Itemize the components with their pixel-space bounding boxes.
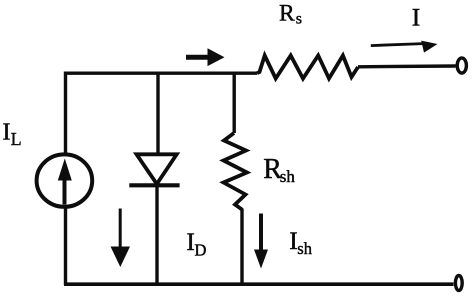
wire diode branch upper: [156, 72, 159, 155]
label Rs: [279, 1, 302, 28]
svg-text:I: I: [412, 2, 421, 31]
label ID: [186, 227, 206, 259]
diode D: [129, 154, 179, 185]
label Rsh: [263, 154, 295, 186]
svg-text:sh: sh: [280, 167, 296, 186]
wire Rsh branch lower: [240, 209, 243, 286]
svg-text:R: R: [279, 1, 295, 27]
svg-text:I: I: [3, 120, 11, 146]
wire bottom horizontal: [64, 282, 454, 286]
wire left vertical upper: [64, 72, 67, 154]
terminal bottom: [455, 276, 462, 291]
current arrow I (top right): [371, 41, 438, 53]
current source arrow: [58, 159, 72, 205]
label I: [412, 2, 421, 31]
svg-text:s: s: [296, 10, 302, 27]
wire diode branch lower: [155, 186, 158, 285]
label IL: [3, 120, 22, 149]
current arrow ID (down): [111, 209, 131, 268]
resistor Rs: [257, 56, 358, 79]
svg-text:sh: sh: [297, 239, 312, 258]
label Ish: [289, 226, 312, 258]
current arrow Ish (down): [254, 214, 268, 269]
wire left vertical lower: [64, 209, 67, 286]
current arrow at node (bold, top middle): [186, 48, 225, 66]
wire Rsh branch upper: [232, 72, 235, 134]
svg-text:L: L: [11, 129, 22, 149]
wire top horizontal: [65, 71, 258, 74]
current source IL: [37, 154, 93, 206]
terminal top: [457, 58, 466, 73]
svg-text:D: D: [195, 240, 207, 259]
resistor Rsh: [224, 133, 248, 210]
wire Rs to top terminal: [358, 64, 456, 68]
